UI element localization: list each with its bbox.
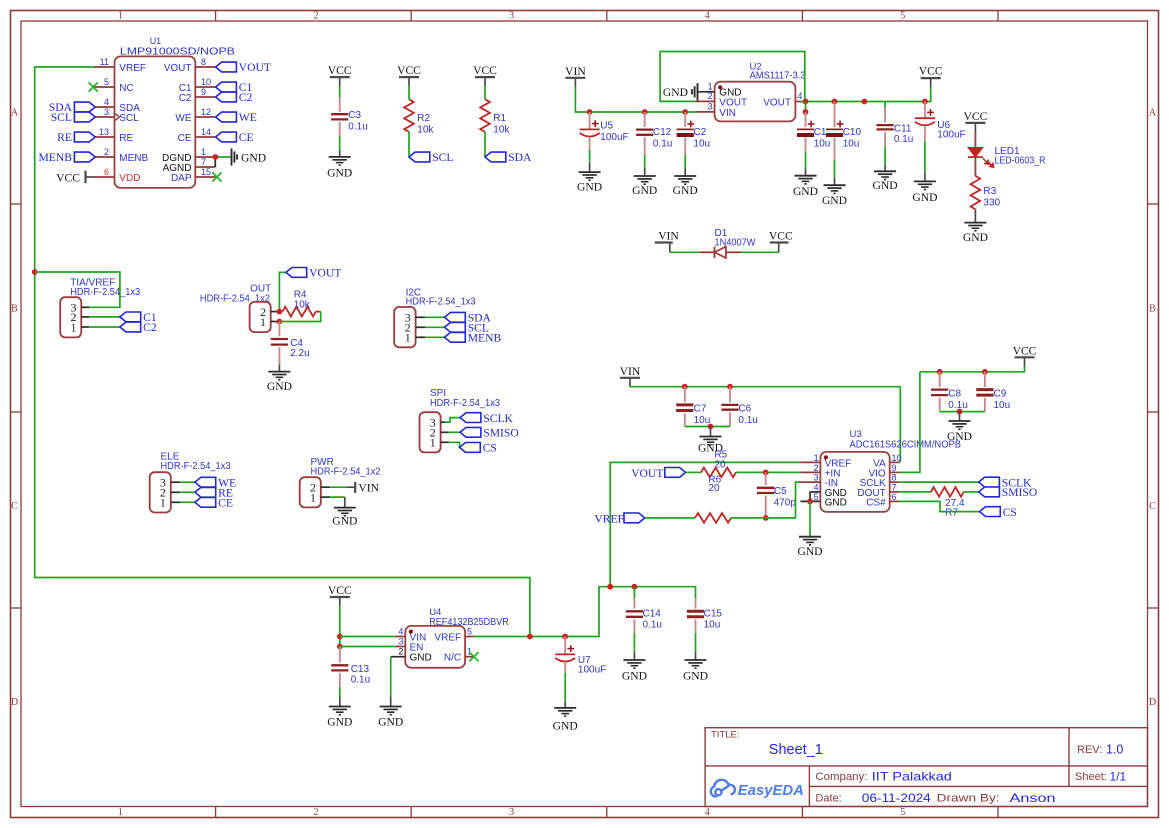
svg-text:06-11-2024: 06-11-2024 <box>862 791 931 805</box>
junction C6 tap <box>727 384 733 390</box>
svg-text:Date:: Date: <box>815 793 841 805</box>
svg-text:3: 3 <box>398 636 403 646</box>
svg-text:10u: 10u <box>843 139 860 150</box>
VIN power symbol at PWR <box>354 482 356 493</box>
capacitor C14 0.1u <box>633 587 635 598</box>
svg-text:2: 2 <box>314 807 319 818</box>
wire U7 to GND <box>564 673 566 701</box>
U1 pin 1 DGND <box>195 156 215 158</box>
svg-text:1: 1 <box>430 436 436 450</box>
U3 pin 2 +IN <box>800 471 820 473</box>
svg-text:10u: 10u <box>694 415 711 426</box>
LED LED1 LED-0603_R <box>968 148 983 158</box>
net flag RE <box>195 487 216 497</box>
wire I2C pin 2 <box>425 326 445 328</box>
regulator U2 AMS1117-3.3 body <box>715 82 796 122</box>
capacitor C9 10u <box>984 372 986 387</box>
svg-text:6: 6 <box>892 492 897 502</box>
U2 pin 1 GND <box>698 91 715 93</box>
svg-text:10k: 10k <box>493 124 510 135</box>
net flag CE from U1 <box>216 132 237 142</box>
no-connect X on U1 pin 15 DAP <box>212 172 221 181</box>
wire SPI pin3 to SCLK flag <box>445 418 460 423</box>
title block <box>705 728 1147 807</box>
U4 pin 1 N/C <box>465 656 475 658</box>
net flag RE into U1 <box>74 132 95 142</box>
capacitor C4 2.2u <box>278 322 280 337</box>
U3 pin 6 CS# <box>890 500 900 502</box>
junction U6 tap <box>922 99 928 105</box>
ground symbol below C12 <box>634 175 656 177</box>
svg-text:1: 1 <box>160 496 166 510</box>
ground symbol below C11 <box>874 170 896 172</box>
net flag C1 from U1 <box>216 82 237 92</box>
capacitor C1 10u polarized <box>805 112 807 127</box>
svg-text:R1: R1 <box>493 113 506 124</box>
net flag SMISO <box>460 427 481 437</box>
svg-text:GND: GND <box>963 231 988 244</box>
svg-text:GND: GND <box>663 86 688 99</box>
U4 pin 5 VREF <box>465 636 475 638</box>
U1 pin 2 MENB <box>95 156 115 158</box>
svg-text:GND: GND <box>797 545 822 558</box>
U1 pin 6 VDD <box>95 176 115 178</box>
svg-text:D: D <box>11 697 18 708</box>
svg-text:3: 3 <box>708 102 713 112</box>
svg-text:10u: 10u <box>994 400 1011 411</box>
junction C7 tap <box>682 384 688 390</box>
resistor R1 10k <box>480 99 490 132</box>
wire ELE pin 2 <box>180 491 195 493</box>
wire drop to C1 <box>805 102 807 112</box>
U4 pin 3 EN <box>395 646 405 648</box>
resistor R2 10k <box>404 99 414 132</box>
junction C14 tap <box>632 584 638 590</box>
svg-text:MENB: MENB <box>468 332 502 345</box>
EasyEDA logo <box>711 780 735 797</box>
svg-text:VCC: VCC <box>397 64 421 77</box>
wire U6 to GND <box>924 141 926 171</box>
svg-text:VREF: VREF <box>594 512 624 525</box>
junction vertical to ADC <box>607 584 613 590</box>
wire VREF flag to R6 <box>645 517 695 519</box>
wire U3 gnd down <box>809 501 811 536</box>
wire I2C pin 3 <box>425 316 445 318</box>
diode D1 1N4007W <box>700 251 715 253</box>
U1 pin 11 VREF <box>95 66 115 68</box>
svg-text:4: 4 <box>797 91 802 101</box>
svg-text:RE: RE <box>119 133 133 144</box>
svg-text:C2: C2 <box>239 91 253 104</box>
svg-text:12: 12 <box>201 107 211 117</box>
wire C11 to GND <box>884 146 886 164</box>
svg-text:1: 1 <box>118 11 123 22</box>
svg-text:1: 1 <box>405 331 411 345</box>
svg-text:10u: 10u <box>814 139 831 150</box>
svg-text:5: 5 <box>467 626 472 636</box>
U1 pin 3 SCL <box>95 116 115 118</box>
svg-text:9: 9 <box>892 463 897 473</box>
svg-text:C: C <box>1149 501 1156 512</box>
ground bar symbol at U2 GND <box>697 83 699 100</box>
U1 pin 7 AGND <box>195 166 215 168</box>
U1 pin 4 SDA <box>95 106 115 108</box>
svg-text:0.1u: 0.1u <box>348 122 367 133</box>
svg-text:1: 1 <box>201 147 206 157</box>
svg-text:REV:: REV: <box>1077 744 1102 756</box>
wire C7 C6 common gnd rail <box>685 426 730 428</box>
svg-text:0.1u: 0.1u <box>643 620 662 631</box>
U1 pin 9 C2 <box>195 96 215 98</box>
net flag SCLK at U3 <box>979 477 1000 487</box>
svg-text:4: 4 <box>104 97 109 107</box>
ELE pin 2 <box>171 491 180 493</box>
svg-text:11: 11 <box>100 57 109 67</box>
wire C14 to GND <box>633 633 635 652</box>
ELE pin 1 <box>171 501 180 503</box>
svg-text:2: 2 <box>708 91 713 101</box>
ground symbol below C1 <box>795 175 817 177</box>
net flag SCL into U1 <box>74 112 95 122</box>
junction U7 tap <box>562 634 568 640</box>
junction node VREF tap <box>32 269 38 275</box>
net flag C1 <box>120 312 141 322</box>
capacitor C15 10u <box>695 597 697 598</box>
svg-text:13: 13 <box>99 127 109 137</box>
wire R2 to SCL flag <box>408 132 410 157</box>
svg-text:U5: U5 <box>600 121 613 132</box>
svg-text:3: 3 <box>104 107 109 117</box>
wire U5 to GND <box>589 150 591 162</box>
junction gnd rail <box>708 424 714 430</box>
svg-text:1: 1 <box>118 807 123 818</box>
svg-text:VCC: VCC <box>963 110 987 123</box>
PWR pin 1 <box>321 496 330 498</box>
capacitor C6 0.1u <box>729 387 731 403</box>
svg-text:C6: C6 <box>738 404 751 415</box>
svg-text:EasyEDA: EasyEDA <box>738 782 804 799</box>
junction VREF loop <box>527 634 533 640</box>
svg-text:HDR-F-2.54_1x3: HDR-F-2.54_1x3 <box>406 297 476 308</box>
SPI pin 3 <box>441 421 449 423</box>
svg-text:GND: GND <box>622 670 647 683</box>
wire R1 to SDA flag <box>484 132 486 157</box>
svg-text:VCC: VCC <box>919 65 943 78</box>
svg-text:C5: C5 <box>774 486 787 497</box>
wire C13 to GND <box>339 687 341 697</box>
svg-text:SCL: SCL <box>119 113 139 124</box>
svg-text:VOUT: VOUT <box>763 98 791 109</box>
wire ELE pin 1 <box>180 501 195 503</box>
wire PWR pin2 to VIN <box>330 486 346 488</box>
wire VIN rail to U2 pin3 <box>575 87 695 112</box>
svg-text:1/1: 1/1 <box>1110 769 1127 783</box>
wire SPI pin2 to SMISO flag <box>449 431 460 433</box>
svg-text:C10: C10 <box>843 127 862 138</box>
svg-text:U3: U3 <box>850 429 862 440</box>
PWR pin 2 <box>321 486 330 488</box>
svg-text:4: 4 <box>814 482 819 492</box>
svg-text:GND: GND <box>267 380 292 393</box>
svg-text:6: 6 <box>104 167 109 177</box>
wire VCC rail for C8 C9 <box>920 367 1025 372</box>
U4 pin 4 VIN <box>395 636 405 638</box>
net flag VOUT from U1 <box>216 62 237 72</box>
U1 pin 12 WE <box>195 116 215 118</box>
ground symbol below C3 <box>329 156 351 158</box>
svg-text:MENB: MENB <box>119 153 148 164</box>
ground symbol below U3 <box>799 536 821 538</box>
junction U4 EN <box>337 644 343 650</box>
svg-text:TITLE:: TITLE: <box>711 730 740 741</box>
svg-text:330: 330 <box>983 197 1000 208</box>
svg-text:20: 20 <box>708 483 720 494</box>
svg-text:B: B <box>1149 304 1156 315</box>
svg-text:GND: GND <box>577 181 602 194</box>
svg-text:10u: 10u <box>693 139 710 150</box>
TIA/VREF pin 2 <box>81 316 89 318</box>
svg-text:IIT Palakkad: IIT Palakkad <box>872 769 952 783</box>
op-amp U1 LMP91000SD/NOPB body <box>115 56 196 188</box>
svg-text:9: 9 <box>201 87 206 97</box>
svg-text:C14: C14 <box>643 609 662 620</box>
net flag CS at U3 <box>980 507 1001 517</box>
net flag MENB <box>445 332 466 342</box>
resistor R5 20 <box>701 468 736 478</box>
wire TIA pin2 to C1 flag <box>89 316 120 318</box>
svg-text:HDR-F-2.54_1x2: HDR-F-2.54_1x2 <box>311 467 381 478</box>
junction U5 tap <box>587 109 593 115</box>
svg-text:1: 1 <box>260 315 266 329</box>
resistor R4 10k <box>283 307 316 317</box>
junction C1 tap <box>803 109 809 115</box>
capacitor U7 100uF polarized <box>564 637 566 655</box>
U3 GND pins wire <box>810 491 820 493</box>
wire VCC to U4 pins <box>339 606 341 646</box>
svg-text:GND: GND <box>410 653 432 664</box>
svg-text:GND: GND <box>793 185 818 198</box>
svg-text:3: 3 <box>509 11 514 22</box>
svg-text:0.1u: 0.1u <box>351 674 370 685</box>
svg-text:14: 14 <box>201 127 211 137</box>
svg-text:WE: WE <box>239 111 257 124</box>
wire VREF vertical to U3 pin1 <box>610 462 800 586</box>
wire LED1 to R3 <box>974 157 976 176</box>
ELE pin 3 <box>171 481 180 483</box>
wire U1.VREF to U3.VREF long loop <box>35 67 530 637</box>
junction C12 tap <box>642 109 648 115</box>
svg-text:GND: GND <box>553 720 578 733</box>
resistor R6 20 <box>695 513 731 523</box>
TIA/VREF pin 3 <box>81 306 89 308</box>
capacitor C11 0.1u <box>884 102 886 109</box>
svg-text:C3: C3 <box>348 110 361 121</box>
svg-text:1: 1 <box>814 453 819 463</box>
U1 pin 15 DAP <box>195 176 215 178</box>
ground symbol below C10 <box>824 184 846 186</box>
wire U4 VREF output <box>475 587 696 637</box>
svg-text:GND: GND <box>632 184 657 197</box>
svg-text:100uF: 100uF <box>937 130 965 141</box>
svg-text:LED-0603_R: LED-0603_R <box>995 155 1046 166</box>
capacitor C7 10u <box>684 387 686 403</box>
svg-text:2: 2 <box>104 147 109 157</box>
wire VIN to D1 <box>670 251 700 253</box>
wire U4 GND down <box>390 657 392 697</box>
svg-text:2: 2 <box>314 11 319 22</box>
capacitor C2 10u polarized <box>684 112 686 127</box>
wire ELE pin 3 <box>180 481 195 483</box>
svg-text:15: 15 <box>201 167 211 177</box>
junction OUT pin1 <box>277 319 283 325</box>
wire VCC to U4 VIN <box>340 636 396 638</box>
svg-text:VOUT: VOUT <box>631 467 663 480</box>
wire R4 to OUT pin1 <box>279 312 320 322</box>
wire VIN rail to U3 VA <box>630 387 900 463</box>
I2C pin 3 <box>416 316 425 318</box>
svg-text:C2: C2 <box>143 321 157 334</box>
svg-text:4: 4 <box>705 11 710 22</box>
svg-text:CE: CE <box>178 133 192 144</box>
svg-text:R7: R7 <box>945 507 958 518</box>
svg-text:WE: WE <box>175 113 191 124</box>
svg-text:NC: NC <box>119 83 133 94</box>
svg-text:DAP: DAP <box>171 173 192 184</box>
net flag SCL <box>445 322 466 332</box>
U3 pin 9 VIO <box>890 471 900 473</box>
svg-text:7: 7 <box>201 157 206 167</box>
U1 pin 14 CE <box>195 136 215 138</box>
svg-text:1N4007W: 1N4007W <box>715 238 757 249</box>
ground symbol below R3 <box>964 222 986 224</box>
wire OUT pin2 up to VOUT flag <box>279 272 286 311</box>
svg-text:A: A <box>1149 108 1157 119</box>
junction C10 tap <box>832 99 838 105</box>
wire U3 VIO to VCC rail <box>900 372 920 473</box>
wire C3 to GND <box>339 136 341 150</box>
junction rail joint <box>862 99 868 105</box>
svg-text:VCC: VCC <box>56 171 80 184</box>
svg-text:VDD: VDD <box>119 173 140 184</box>
svg-text:HDR-F-2.54_1x3: HDR-F-2.54_1x3 <box>70 287 140 298</box>
wire VOUT flag to R5 <box>686 471 701 473</box>
net flag VOUT <box>286 268 307 278</box>
capacitor C12 0.1u <box>644 112 646 127</box>
svg-text:GND: GND <box>241 151 266 164</box>
capacitor C13 0.1u <box>339 647 341 663</box>
svg-text:3: 3 <box>509 807 514 818</box>
svg-text:VCC: VCC <box>769 230 793 243</box>
junction OUT pin2 <box>277 309 283 315</box>
I2C pin 2 <box>416 326 425 328</box>
svg-text:C13: C13 <box>351 664 370 675</box>
svg-text:10: 10 <box>201 77 211 87</box>
svg-text:VIN: VIN <box>658 230 679 243</box>
wire PWR pin1 to GND <box>330 496 345 498</box>
net flag MENB into U1 <box>74 152 95 162</box>
wire C2 to GND <box>684 155 686 168</box>
wire U2 feedback loop pin2 to output <box>660 52 805 102</box>
SPI pin 2 <box>441 431 449 433</box>
svg-text:SMISO: SMISO <box>1002 486 1037 499</box>
junction U4 VIN <box>337 634 343 640</box>
I2C pin 1 <box>416 336 425 338</box>
no-connect X at U4 N/C <box>469 652 478 661</box>
wire U3 SCLK to flag <box>900 481 979 483</box>
svg-text:0.1u: 0.1u <box>738 415 757 426</box>
svg-text:8: 8 <box>201 57 206 67</box>
svg-text:CS: CS <box>483 442 497 455</box>
svg-text:0.1u: 0.1u <box>894 134 913 145</box>
svg-text:GND: GND <box>912 191 937 204</box>
svg-text:1: 1 <box>310 490 316 504</box>
ground symbol below U7 <box>554 707 576 709</box>
resistor R3 330 <box>971 176 981 209</box>
svg-text:470p: 470p <box>774 497 797 508</box>
wire I2C pin 1 <box>425 336 445 338</box>
svg-text:VIN: VIN <box>719 108 736 119</box>
svg-text:R2: R2 <box>417 113 430 124</box>
svg-text:C: C <box>11 501 18 512</box>
svg-text:VOUT: VOUT <box>239 61 271 74</box>
svg-text:VIN: VIN <box>565 65 586 78</box>
wire VCC to C3 <box>339 86 341 97</box>
svg-text:HDR-F-2.54_1x3: HDR-F-2.54_1x3 <box>161 461 231 472</box>
svg-text:1: 1 <box>708 81 713 91</box>
ground symbol below C2 <box>674 175 696 177</box>
ground bar symbol at U1 DGND <box>231 148 233 165</box>
no-connect X on U1 pin 5 NC <box>89 82 98 91</box>
junction C8 tap <box>937 369 943 375</box>
svg-text:GND: GND <box>673 184 698 197</box>
wire TIA pin1 to C2 flag <box>89 326 120 328</box>
svg-text:GND: GND <box>683 670 708 683</box>
wire R7 to SMISO flag <box>964 491 979 493</box>
OUT pin 1 <box>271 321 280 323</box>
wire SPI pin1 to CS flag <box>449 442 460 447</box>
capacitor C3 0.1u <box>339 97 341 112</box>
wire R3 to GND <box>974 209 976 222</box>
svg-text:10k: 10k <box>417 124 434 135</box>
capacitor C8 0.1u <box>939 372 941 387</box>
svg-text:GND: GND <box>327 167 352 180</box>
U1 pin 13 RE <box>95 136 115 138</box>
svg-text:C12: C12 <box>653 127 672 138</box>
svg-text:Company:: Company: <box>815 771 867 783</box>
svg-text:7: 7 <box>892 482 897 492</box>
svg-text:VREF: VREF <box>434 632 461 643</box>
wire VCC to U4 EN <box>340 646 396 648</box>
wire R6 to U3 -IN <box>731 482 800 518</box>
U3 pin 3 -IN <box>800 481 820 483</box>
svg-text:N/C: N/C <box>444 653 461 664</box>
svg-text:C9: C9 <box>994 388 1007 399</box>
svg-text:LMP91000SD/NOPB: LMP91000SD/NOPB <box>120 47 235 58</box>
U2 pin 2 VOUT <box>695 100 714 102</box>
ground symbol below C15 <box>685 659 707 661</box>
svg-text:SDA: SDA <box>508 151 532 164</box>
wire VCC to R1 <box>484 86 486 99</box>
wire U3 DOUT to R7 <box>900 491 931 493</box>
svg-text:Anson: Anson <box>1010 791 1056 805</box>
capacitor U6 100uF polarized <box>924 102 926 119</box>
svg-text:CE: CE <box>239 131 254 144</box>
U1 pin 5 NC <box>95 86 115 88</box>
svg-text:A: A <box>11 108 19 119</box>
U2 pin 3 VIN <box>695 111 714 113</box>
svg-text:C7: C7 <box>694 404 707 415</box>
svg-text:4: 4 <box>398 626 403 636</box>
